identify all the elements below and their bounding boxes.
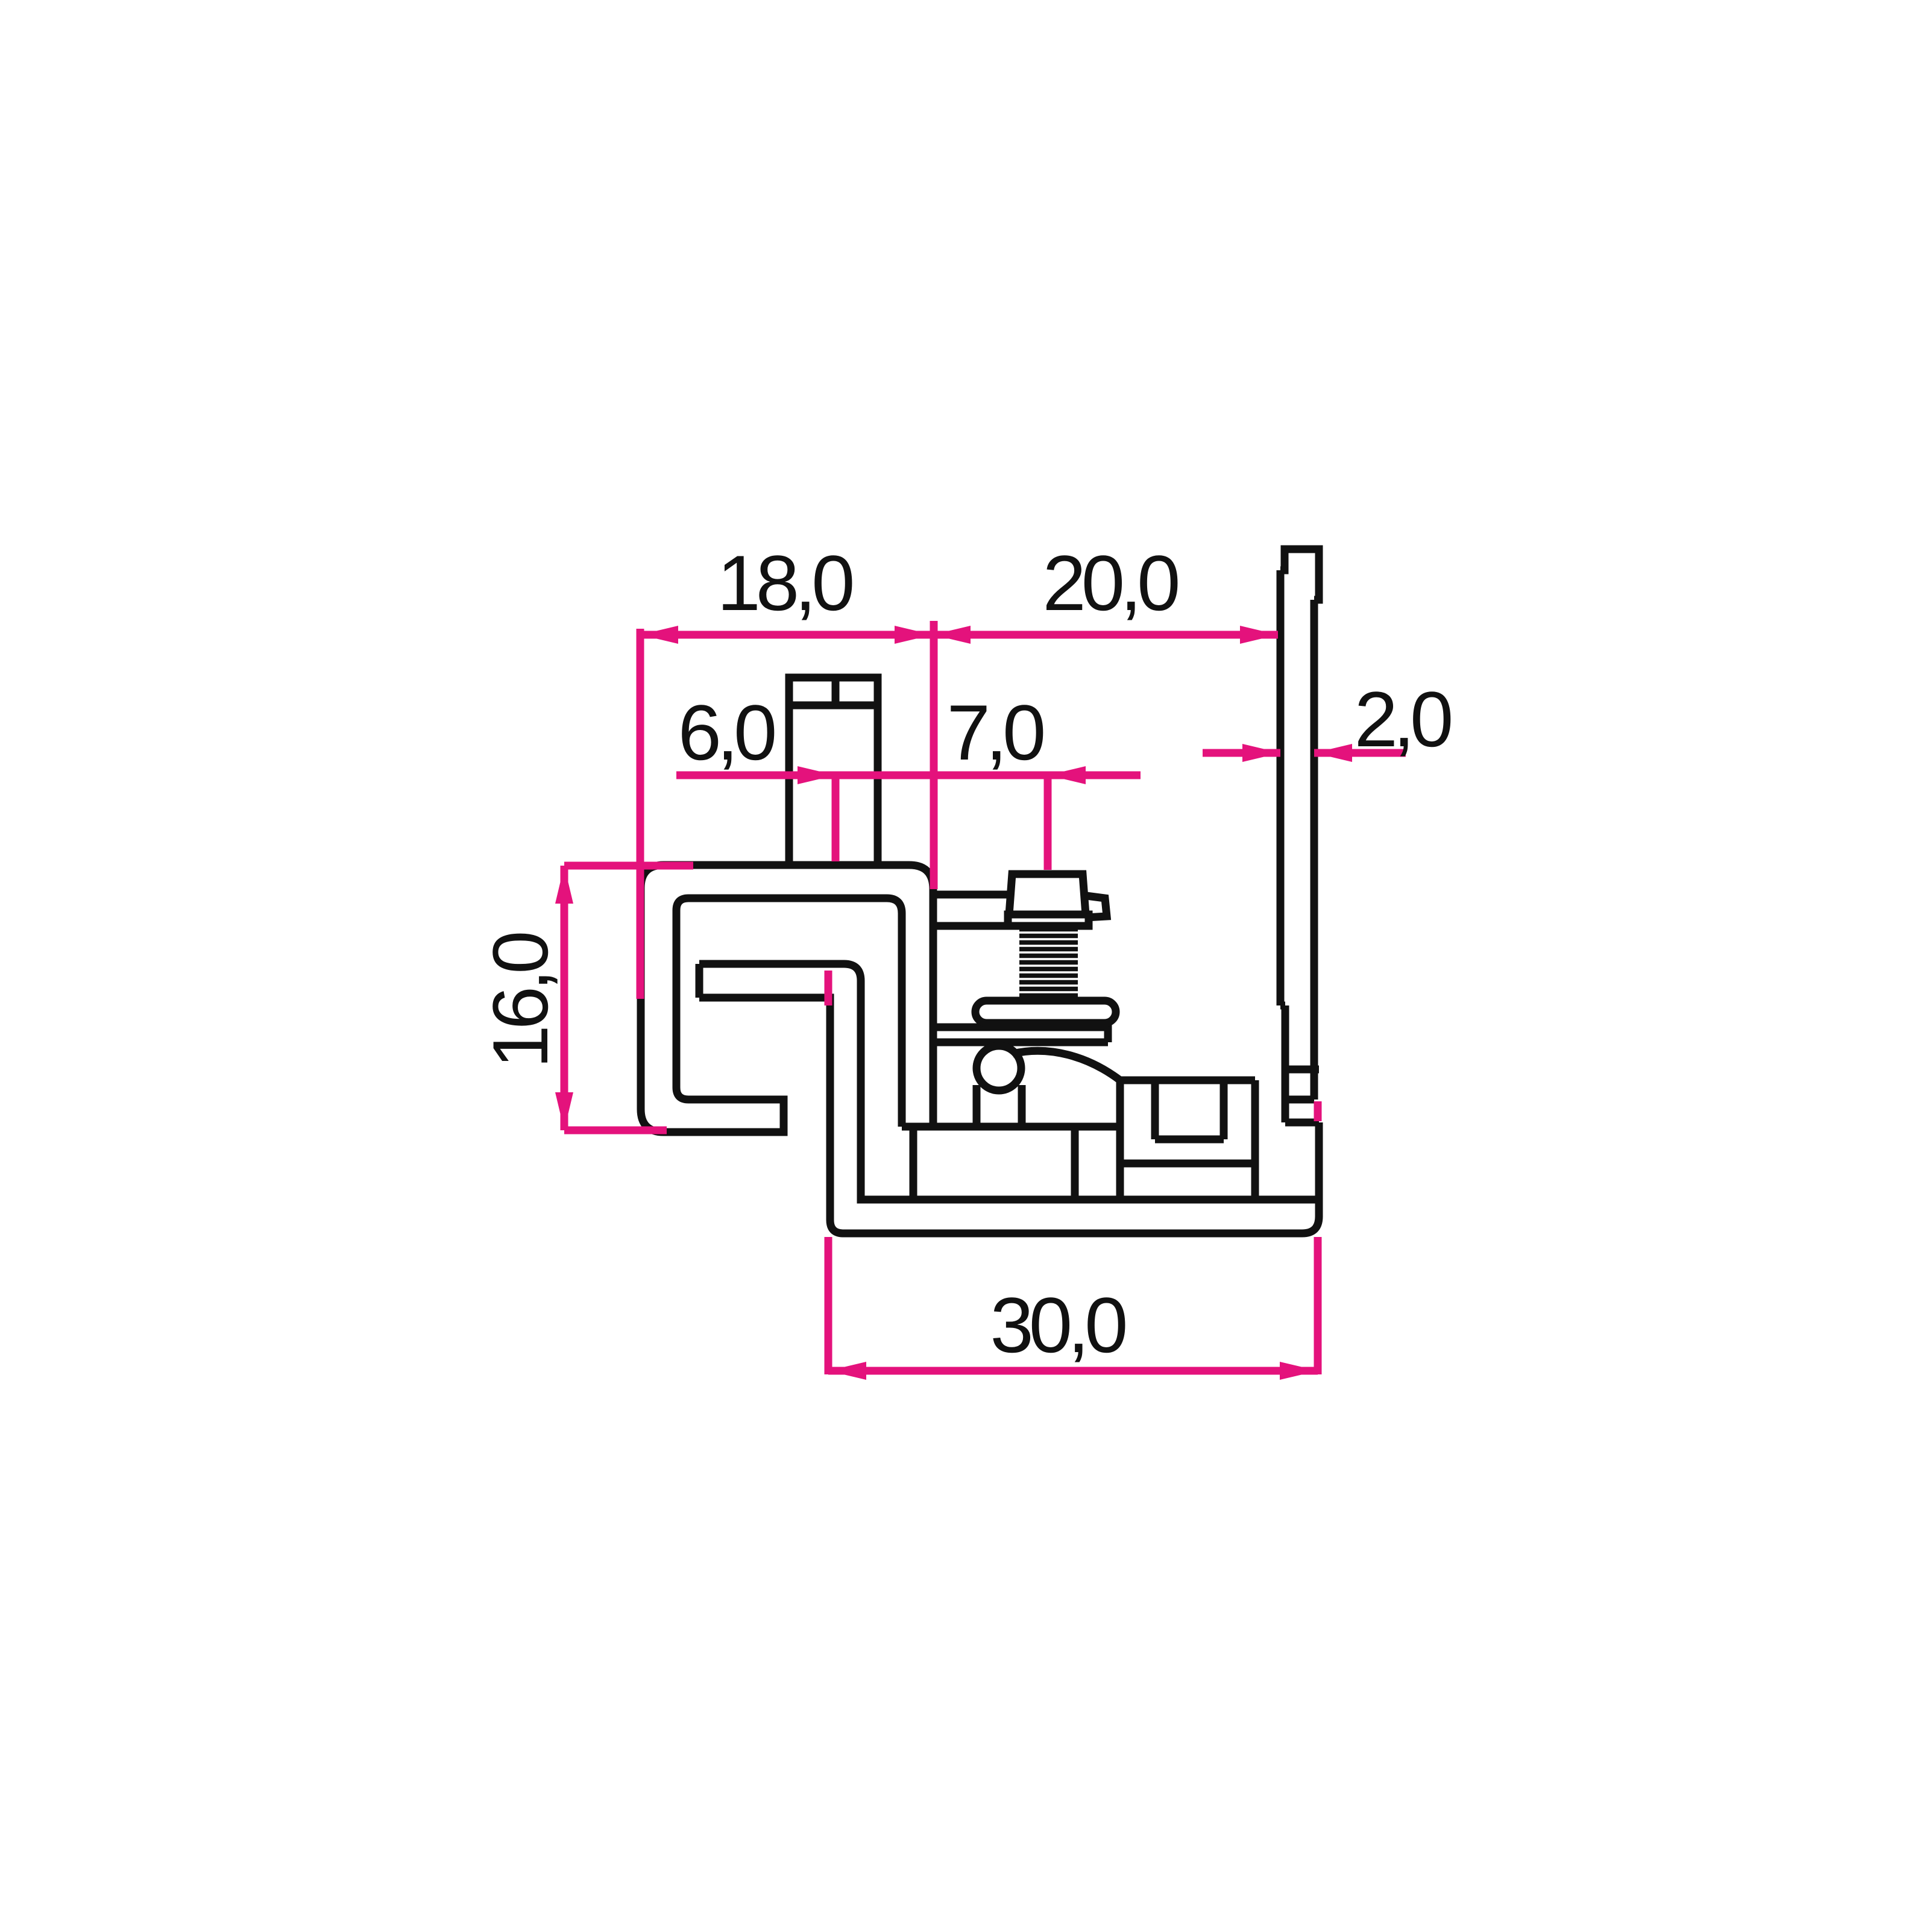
svg-text:6,0: 6,0: [678, 688, 775, 776]
top tab divider: [832, 678, 840, 705]
svg-text:7,0: 7,0: [947, 688, 1043, 776]
cavity shelf line: [902, 1123, 1120, 1131]
arrow 7,0: [1048, 766, 1086, 784]
hook bar left cap: [696, 964, 703, 998]
arrow 16,0 top: [555, 866, 573, 904]
rail left edge upper: [1277, 570, 1285, 1005]
dimension line 16,0: [561, 866, 568, 1130]
upper arm top edge: [933, 891, 1010, 899]
notch block left edge: [1116, 1080, 1124, 1200]
30,0 right extension: [1314, 1237, 1322, 1374]
rail right edge: [1311, 600, 1318, 1100]
2,0 right leader: [1314, 749, 1406, 757]
arrow 2,0 left: [1242, 744, 1280, 762]
lower jaw plate bottom edge: [933, 1039, 1108, 1046]
notch right wall: [1220, 1080, 1228, 1139]
pin slot right wall: [1018, 1085, 1026, 1127]
dimension line 30,0: [828, 1367, 1318, 1375]
roller pin circle: [977, 1046, 1021, 1090]
notch left wall: [1151, 1080, 1159, 1139]
top tab inner line: [789, 702, 878, 710]
arrow 18,0 left: [640, 626, 678, 644]
rail seat tick lower: [1285, 1119, 1319, 1127]
rail top cap: [1280, 549, 1319, 600]
arrow 20,0 right: [1240, 626, 1278, 644]
hook bar bottom edge, Z-wall outer edge, base bottom edge, right wall: [699, 998, 1319, 1233]
extension 6,0: [832, 775, 840, 861]
pin slot left wall: [973, 1085, 981, 1127]
notch bottom edge: [1155, 1136, 1224, 1144]
notch block right edge: [1251, 1080, 1259, 1200]
arrow 2,0 right: [1314, 744, 1352, 762]
30,0 left extension overlay: [825, 971, 832, 1005]
top tab outline: [789, 678, 878, 865]
cavity divider right: [1071, 1127, 1079, 1200]
arrow 18,0 right: [895, 626, 933, 644]
divider extension line: [930, 621, 938, 889]
lower jaw plate top edge: [933, 1024, 1108, 1031]
left extension line 18,0: [637, 629, 644, 999]
upper arm bottom / flange seat line: [933, 922, 1087, 930]
screw head box: [1009, 874, 1086, 914]
notch block top edge: [1120, 1077, 1255, 1084]
rail seat tick upper: [1285, 1066, 1319, 1074]
arrow 20,0 left: [933, 626, 971, 644]
arrow 16,0 bottom: [555, 1092, 573, 1130]
svg-text:20,0: 20,0: [1042, 539, 1178, 627]
cam hump curve: [1013, 1051, 1120, 1080]
rail left edge lower: [1282, 1005, 1289, 1122]
washer: [975, 1001, 1116, 1023]
30,0 right extension overlay: [1314, 1101, 1322, 1121]
rail left edge step: [1280, 1002, 1285, 1010]
svg-text:30,0: 30,0: [990, 1281, 1125, 1369]
16,0 top extension: [564, 862, 693, 870]
clamp C-profile outline: [641, 865, 933, 1132]
notch block step line: [1120, 1160, 1255, 1168]
arrow 30,0 left: [828, 1362, 866, 1380]
dimension line 6,0 and 7,0: [676, 772, 1141, 779]
screw threads: [1015, 926, 1083, 999]
16,0 bottom extension: [564, 1127, 667, 1134]
arrow 30,0 right: [1280, 1362, 1318, 1380]
arrow 6,0: [798, 766, 835, 784]
svg-text:18,0: 18,0: [717, 539, 852, 627]
screw head nub: [1086, 896, 1107, 917]
lower jaw plate right cap: [1104, 1022, 1112, 1042]
cavity divider left: [910, 1127, 917, 1200]
rail bottom tick: [1285, 1096, 1314, 1104]
30,0 left extension: [825, 1237, 832, 1374]
2,0 left leader: [1203, 749, 1280, 757]
extension 7,0: [1044, 775, 1052, 870]
dimension line 18,0 and 20,0: [640, 631, 1278, 639]
screw head flange: [1008, 914, 1089, 926]
svg-text:2,0: 2,0: [1355, 675, 1451, 763]
svg-text:16,0: 16,0: [476, 933, 564, 1069]
hook bar top edge and Z-wall inner edge and base top edge: [699, 964, 1319, 1200]
